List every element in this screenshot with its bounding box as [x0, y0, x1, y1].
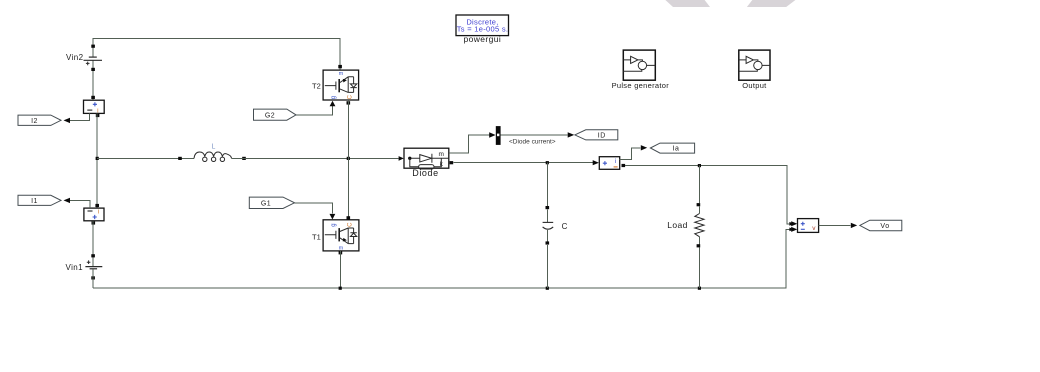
node junction T1 on bus — [339, 287, 342, 290]
wire Vin1 to ground bus — [92, 269, 94, 288]
svg-text:g: g — [331, 96, 337, 99]
wire I2 sensor down to inductor node — [96, 113, 98, 208]
load resistor — [667, 166, 704, 289]
goto tag Ia — [650, 143, 694, 153]
node junction capacitor tap — [546, 161, 549, 164]
svg-text:m: m — [339, 71, 344, 77]
node junction source column — [96, 157, 99, 160]
svg-text:Load: Load — [667, 220, 688, 230]
wire diode cathode to Ia sensor — [454, 162, 593, 164]
svg-text:m: m — [438, 151, 443, 158]
igbt T2 — [312, 65, 359, 105]
wire Vo sensor to tag Vo — [819, 224, 851, 226]
svg-text:m: m — [339, 245, 344, 251]
svg-text:Ts = 1e-005 s.: Ts = 1e-005 s. — [457, 24, 509, 33]
wire inductor to diode anode — [232, 157, 399, 159]
svg-text:g: g — [331, 223, 337, 226]
svg-text:I2: I2 — [31, 118, 38, 125]
wire T2 emitter to T1 collector — [347, 100, 349, 220]
svg-text:G2: G2 — [265, 112, 275, 119]
svg-text:Vin2: Vin2 — [66, 53, 84, 62]
svg-text:C: C — [348, 94, 354, 99]
current measurement sensor for Ia — [599, 157, 625, 170]
goto tag ID — [575, 130, 618, 140]
svg-text:T2: T2 — [312, 81, 321, 90]
node junction C on bus — [546, 287, 549, 290]
from tag G2 — [254, 109, 297, 120]
current measurement sensor for I1 — [84, 204, 104, 225]
wire bus selector to tag ID — [501, 134, 568, 136]
svg-text:i: i — [98, 208, 99, 215]
goto tag Vo — [860, 220, 902, 231]
capacitor C — [543, 163, 568, 289]
wire G2 to T2 gate — [296, 106, 333, 115]
svg-text:Vin1: Vin1 — [66, 263, 84, 272]
wire Vin2 to I2 sensor — [92, 60, 94, 100]
wire Ia sensor i output to tag Ia — [620, 148, 641, 160]
wire I1 sensor output to tag I1 — [70, 200, 90, 208]
from tag G1 — [249, 197, 294, 208]
dc source Vin2 — [66, 45, 102, 71]
inductor L — [178, 144, 246, 162]
svg-text:I1: I1 — [31, 198, 38, 205]
svg-text:<Diode current>: <Diode current> — [509, 139, 556, 146]
svg-text:C: C — [348, 222, 354, 227]
node junction T2-T1 midpoint — [347, 157, 350, 160]
node junction Load on bus — [698, 287, 701, 290]
svg-text:C: C — [562, 222, 568, 231]
wire top bus from Vin2 to T2 collector — [93, 39, 340, 71]
svg-text:Vo: Vo — [880, 223, 889, 230]
voltage measurement sensor for Vo — [798, 219, 819, 233]
svg-text:Pulse generator: Pulse generator — [612, 81, 670, 90]
subsystem Pulse generator — [612, 50, 670, 90]
wire Ia sensor to output node and Vo sensor plus — [625, 166, 791, 224]
subsystem Output — [739, 50, 770, 90]
goto tag I1 — [18, 195, 61, 205]
goto tag I2 — [18, 115, 61, 125]
node junction load tap — [698, 164, 701, 167]
svg-text:L: L — [212, 144, 216, 151]
svg-text:Output: Output — [742, 81, 767, 90]
svg-text:Ia: Ia — [673, 146, 680, 153]
svg-text:T1: T1 — [312, 233, 321, 242]
wire T1 emitter to ground bus — [339, 251, 341, 288]
current measurement sensor for I2 — [84, 96, 105, 117]
svg-text:G1: G1 — [261, 200, 271, 207]
svg-text:Diode: Diode — [412, 168, 439, 178]
powergui block — [456, 15, 509, 44]
wire I2 sensor output to tag I2 — [70, 113, 89, 120]
diode D1 — [404, 148, 449, 178]
wire node to inductor — [97, 157, 194, 159]
svg-text:ID: ID — [598, 133, 606, 140]
svg-text:i: i — [615, 158, 616, 165]
ground bus bottom wire — [93, 229, 791, 288]
svg-text:powergui: powergui — [463, 34, 501, 44]
wire diode m output to bus selector — [449, 135, 490, 153]
dc source Vin1 — [66, 254, 103, 279]
igbt T1 — [312, 216, 359, 254]
wire G1 to T1 gate — [295, 203, 333, 214]
wire I1 sensor to Vin1 — [92, 221, 94, 267]
bus selector — [496, 126, 501, 145]
